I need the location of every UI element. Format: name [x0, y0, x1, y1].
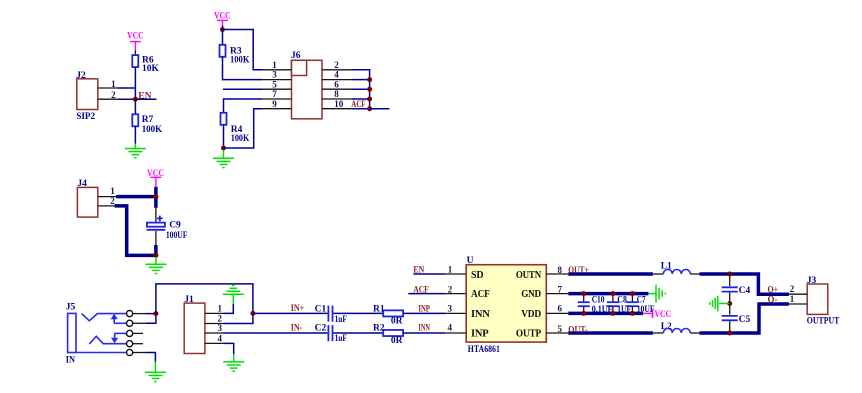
tip spring contact [82, 314, 127, 321]
svg-text:SD: SD [471, 270, 483, 281]
svg-text:J6: J6 [291, 51, 301, 61]
capacitor C4 [722, 286, 751, 296]
svg-text:L2: L2 [661, 322, 672, 332]
node C9/ground junction [153, 253, 158, 258]
svg-text:5: 5 [272, 79, 277, 89]
capacitor C4 pin top [729, 274, 731, 286]
wire IN- net (from J1 pin3) [224, 332, 328, 334]
ground (below R7) [125, 144, 146, 158]
node J4/VCC junction [153, 194, 158, 199]
IC pin 4 stub [445, 323, 466, 333]
resistor R7 [132, 114, 162, 135]
wire junction down to R3 [222, 30, 224, 45]
svg-text:1: 1 [448, 265, 453, 275]
svg-text:6: 6 [558, 304, 563, 314]
svg-text:EN: EN [413, 266, 424, 276]
svg-text:3: 3 [447, 303, 452, 313]
svg-text:3: 3 [217, 323, 222, 333]
svg-text:1UF: 1UF [617, 305, 631, 315]
resistor R4 [221, 113, 250, 144]
svg-text:C8: C8 [617, 295, 627, 305]
J6 pin 7 [262, 89, 292, 99]
svg-text:2: 2 [217, 314, 222, 324]
connector J6 [291, 51, 322, 119]
J6 pin 4 [322, 70, 352, 80]
node R4/ground junction [221, 146, 226, 151]
wire R1 to IC pin 3 [403, 312, 445, 314]
thick wire J4 pin2 loop [115, 206, 158, 256]
capacitor C5 pin top [729, 304, 731, 315]
wire C2 to R2 [334, 332, 384, 334]
capacitor C8 pin top [612, 294, 614, 302]
ground (left of C4/C5 mid, sideways) [710, 296, 729, 312]
inductor L1 [653, 261, 700, 274]
switch arrow down [115, 332, 127, 334]
node EN junction [133, 97, 138, 102]
J1 pin 1 [205, 304, 224, 314]
node jack junction [153, 311, 158, 316]
J6 pin 8 [322, 89, 352, 99]
svg-text:4: 4 [334, 70, 339, 80]
inductor L2 [653, 322, 700, 333]
node C10 bottom junction [581, 311, 586, 316]
wire contact2 up to junction [146, 314, 156, 324]
svg-text:C2: C2 [315, 324, 327, 334]
audio jack J5 [66, 302, 133, 365]
connector J1 [184, 295, 205, 353]
wire J6 right pin to bus [352, 98, 370, 100]
R6 pin top [134, 51, 136, 56]
svg-text:7: 7 [272, 89, 277, 99]
svg-text:9: 9 [272, 99, 277, 109]
svg-text:0R: 0R [391, 317, 403, 327]
resistor R3 [220, 45, 251, 66]
thick wire L1 to O+ [700, 274, 789, 294]
IC pin 7 stub [546, 284, 568, 294]
ground (inverted, above J1) [223, 286, 244, 304]
svg-text:VCC: VCC [127, 31, 144, 41]
svg-text:C7: C7 [637, 295, 646, 305]
node C7 bottom junction [630, 311, 635, 316]
svg-text:O-: O- [768, 295, 778, 305]
svg-text:4: 4 [447, 323, 452, 333]
J6 pin 3 [262, 70, 292, 80]
resistor R1 [373, 304, 403, 326]
J1 pin 3 [205, 323, 224, 333]
capacitor C5 pin bottom [729, 321, 731, 333]
jack contact circles [127, 311, 133, 317]
thick wire VDD row [568, 312, 643, 316]
svg-text:1: 1 [272, 60, 277, 70]
svg-text:ACF: ACF [351, 100, 365, 110]
thick wire L2 to O- [700, 304, 789, 333]
svg-text:EN: EN [138, 91, 151, 101]
J5 contact2 pin stub [133, 322, 147, 324]
svg-text:C10: C10 [592, 295, 605, 305]
power VCC (right of VDD row) [643, 310, 653, 318]
IC pin 8 stub [546, 265, 568, 275]
svg-text:1: 1 [111, 79, 116, 89]
svg-text:7: 7 [558, 284, 563, 294]
svg-text:INN: INN [471, 309, 491, 320]
capacitor C5 [722, 315, 751, 325]
svg-text:4: 4 [217, 334, 222, 344]
wire R4 bottom to ground junction [223, 125, 225, 148]
wire VCC to junction [222, 26, 224, 30]
J3 pin 1 [789, 294, 807, 304]
J5 contact4 stub [133, 343, 144, 345]
svg-text:SIP2: SIP2 [76, 112, 95, 122]
J5 tip pin stub [133, 313, 147, 315]
J1 pin 2 [205, 314, 224, 324]
J2 pin 2 [98, 90, 118, 100]
ground (below C9) [145, 257, 166, 274]
C9 pin bottom [155, 231, 157, 245]
wire R6 bottom to EN junction [134, 67, 136, 99]
svg-text:IN: IN [66, 355, 75, 365]
wire J6 right pin to bus [352, 79, 370, 81]
resistor R2 [373, 324, 403, 346]
IC pin 1 stub [445, 265, 466, 275]
svg-text:100K: 100K [230, 56, 250, 66]
J5 contact3 stub [133, 332, 144, 334]
wire J1 pin2 to junction [224, 313, 253, 323]
wire EN to IC pin 1 [413, 273, 445, 275]
connector J3 [807, 276, 840, 327]
svg-text:100K: 100K [231, 134, 250, 144]
svg-text:OUTPUT: OUTPUT [807, 317, 840, 327]
wire J6 right pin to bus [352, 88, 370, 90]
capacitor C7 pin top [631, 294, 633, 302]
svg-text:2: 2 [448, 284, 453, 294]
svg-text:100K: 100K [142, 125, 163, 135]
svg-text:ACF: ACF [471, 289, 490, 300]
svg-text:2: 2 [111, 90, 116, 100]
wire right bus vertical [369, 80, 371, 109]
svg-text:0R: 0R [391, 336, 403, 346]
IC pin 3 stub [445, 303, 466, 313]
wire J1 pin4 to ground [224, 343, 234, 354]
node C4/C5 mid junction [727, 301, 732, 306]
capacitor C4 pin bottom [729, 293, 731, 304]
C9 pin top [155, 208, 157, 222]
node bus junction [367, 97, 372, 102]
svg-text:IN+: IN+ [291, 304, 304, 314]
J5 sleeve pin stub [133, 352, 147, 354]
wire sleeve to ground [146, 353, 155, 362]
node bus junction [367, 87, 372, 92]
capacitor C8 pin bottom [612, 307, 614, 314]
node C8 top junction [610, 291, 615, 296]
J6 pin 2 [322, 60, 352, 70]
node IN+ junction [250, 311, 255, 316]
power VCC (above R3) [214, 12, 231, 26]
IC pin 5 stub [546, 324, 568, 334]
power VCC (above C9) [147, 169, 164, 187]
svg-text:IN-: IN- [291, 324, 303, 334]
ground (below R4) [213, 150, 234, 168]
svg-text:2: 2 [790, 284, 795, 294]
wire tip to junction [146, 313, 156, 315]
node C10 top junction [581, 291, 586, 296]
svg-text:OUT+: OUT+ [568, 266, 589, 276]
wire stub J6 pin 5 [223, 88, 262, 90]
svg-text:1: 1 [217, 304, 222, 314]
sleeve line [76, 352, 127, 354]
connector J4 [77, 179, 97, 217]
wire junction right and down to J6 pin 1 [223, 30, 263, 70]
svg-text:INP: INP [471, 328, 488, 339]
svg-text:OUTN: OUTN [516, 270, 542, 281]
svg-text:10: 10 [334, 99, 344, 109]
svg-text:0.1UF: 0.1UF [592, 305, 613, 315]
svg-text:R7: R7 [142, 115, 154, 125]
svg-text:6: 6 [334, 79, 339, 89]
svg-text:R1: R1 [373, 304, 385, 314]
svg-text:R2: R2 [373, 324, 385, 334]
wire J2 pin1 to R6 column [117, 87, 135, 89]
wire C1 to R1 [334, 312, 384, 314]
wire J1 pin1 to ground above [224, 304, 234, 314]
J6 pin 9 [262, 99, 292, 109]
svg-text:5: 5 [558, 324, 563, 334]
node bus junction [367, 77, 372, 82]
ring spring contact [89, 336, 127, 344]
wire EN junction to R7 [134, 99, 136, 114]
svg-text:1uF: 1uF [335, 315, 347, 325]
J2 pin 1 [98, 79, 118, 89]
svg-text:1uF: 1uF [335, 334, 347, 344]
wire J6 right pin to bus [352, 108, 370, 110]
wire EN net (J2 pin2 through junction) [117, 98, 156, 100]
svg-text:8: 8 [558, 265, 563, 275]
ground (right of GND row, sideways) [648, 285, 665, 303]
J6 pin 6 [322, 79, 352, 89]
node C5 bottom junction [727, 331, 732, 336]
wire R3 bottom to J6 pin 3 [223, 57, 263, 80]
J4 pin 1 [98, 186, 116, 197]
resistor R6 [132, 55, 159, 74]
node C8 bottom junction [610, 311, 615, 316]
svg-text:2: 2 [334, 60, 339, 70]
wire R2 to IC pin 4 [403, 332, 445, 334]
capacitor C10 [578, 302, 590, 306]
J6 pin 1 [262, 60, 292, 70]
J1 pin 4 [205, 334, 224, 344]
svg-text:C9: C9 [169, 220, 181, 230]
svg-text:ACF: ACF [413, 285, 428, 295]
IC pin 2 stub [445, 284, 466, 294]
thick wire C9 to ground junction [154, 245, 158, 255]
svg-text:C5: C5 [739, 315, 751, 325]
svg-text:OUT-: OUT- [568, 325, 587, 335]
J3 pin 2 [789, 284, 807, 294]
IC pin 6 stub [546, 304, 568, 314]
thick wire OUT+ [568, 272, 653, 276]
svg-text:2: 2 [110, 196, 115, 206]
svg-text:GND: GND [521, 289, 541, 300]
svg-text:C4: C4 [739, 286, 751, 296]
thick wire GND row [568, 292, 648, 296]
node C7 top junction [630, 291, 635, 296]
capacitor C1 [315, 304, 347, 325]
svg-text:O+: O+ [768, 286, 779, 296]
J6 pin 5 [262, 79, 292, 89]
svg-text:VDD: VDD [521, 309, 541, 320]
capacitor C7 [626, 302, 638, 306]
svg-text:C1: C1 [315, 304, 327, 314]
wire ACF tail [370, 108, 390, 110]
svg-text:VCC: VCC [655, 310, 672, 320]
capacitor C10 pin bottom [583, 307, 585, 314]
wire J6 pin 7 to R4 [224, 99, 263, 113]
svg-text:1: 1 [110, 186, 115, 196]
wire J6 pin 2 to right bus [352, 70, 370, 80]
ground (below J5 sleeve) [145, 362, 166, 382]
J6 pin 10 [322, 99, 352, 109]
svg-text:INP: INP [418, 304, 430, 314]
node VCC/R3 junction [220, 27, 225, 32]
capacitor C2 [315, 324, 347, 345]
svg-text:INN: INN [418, 324, 430, 334]
svg-text:10K: 10K [142, 64, 160, 74]
svg-text:J5: J5 [66, 302, 76, 312]
thick wire OUT- [568, 331, 653, 335]
thick wire J4 pin1 to VCC junction [116, 195, 158, 199]
switch arrow up [113, 319, 115, 324]
capacitor C8 [607, 302, 619, 306]
J4 pin 2 [98, 196, 115, 206]
svg-text:8: 8 [334, 89, 339, 99]
svg-text:HTA6861: HTA6861 [468, 345, 500, 355]
capacitor C7 pin bottom [631, 307, 633, 314]
wire ACF to IC pin 2 [408, 293, 445, 295]
op-amp / amplifier IC U HTA6861 [466, 256, 546, 355]
node C4 top junction [727, 272, 732, 277]
wire junction to J6 pin 9 [224, 109, 263, 148]
connector J2 [76, 71, 98, 122]
wire R7 bottom to ground [134, 126, 136, 143]
thick wire VCC vertical [154, 187, 158, 208]
svg-text:OUTP: OUTP [516, 328, 541, 339]
wire IN+ net [253, 312, 328, 314]
ground (below J1 pin4) [223, 354, 244, 371]
capacitor C10 pin top [583, 294, 585, 302]
svg-text:1: 1 [790, 294, 795, 304]
power VCC (above R6) [127, 31, 144, 50]
wire jack junction up and over to J1 junction [156, 284, 253, 314]
svg-text:100UF: 100UF [166, 231, 188, 241]
node bus junction [367, 106, 372, 111]
svg-text:3: 3 [272, 70, 277, 80]
capacitor C9 (electrolytic, polarized) [147, 216, 188, 241]
